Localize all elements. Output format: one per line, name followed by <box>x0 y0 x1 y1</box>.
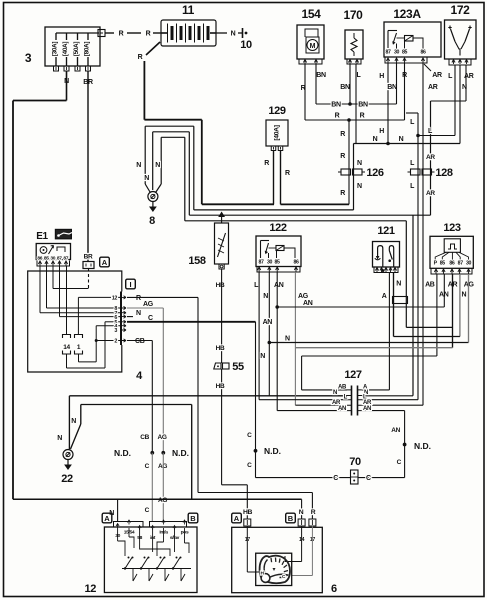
wire HB drop to 6 <box>246 485 248 519</box>
svg-text:HB: HB <box>216 282 225 289</box>
splice AN/C <box>403 443 407 447</box>
svg-text:[40A]: [40A] <box>62 42 69 56</box>
switch 158 symbol <box>218 233 226 257</box>
battery 11 thick plate <box>207 26 210 40</box>
svg-text:A: A <box>234 514 240 523</box>
svg-text:B: B <box>288 514 294 523</box>
fuse 80A terminal <box>86 66 91 71</box>
relay 122 terminal <box>268 267 271 270</box>
relay 123 fan line 85 <box>442 252 449 260</box>
switch 121 terminal <box>393 268 396 271</box>
battery 11 thick plate <box>171 26 174 40</box>
E1 key icon <box>55 229 71 238</box>
battery 11 thick plate <box>180 26 183 40</box>
relay 123 fan line P <box>435 252 446 260</box>
motor 154 M symbol <box>306 37 319 53</box>
cluster 6 N lead v <box>284 556 286 562</box>
svg-text:AR: AR <box>426 154 435 161</box>
switch 12 contact dot <box>144 557 146 559</box>
svg-text:86: 86 <box>449 261 455 267</box>
wire N drop to 12 <box>117 499 119 521</box>
relay 122 link <box>269 247 277 249</box>
svg-text:N: N <box>399 136 404 143</box>
switch 172 common left <box>455 42 460 56</box>
wire BN 123A pin30 <box>396 63 398 104</box>
switch 172 terminal bracket <box>449 59 471 65</box>
wire N drop to 6 <box>301 499 303 519</box>
svg-text:87: 87 <box>258 260 264 266</box>
switch 121 terminal <box>380 268 383 271</box>
wire R horizontal bottom <box>198 492 312 494</box>
svg-text:87: 87 <box>385 50 391 56</box>
motor 154 lead <box>304 33 306 37</box>
connector 55 <box>214 363 221 369</box>
wire AB 127 left <box>302 389 347 391</box>
svg-text:6: 6 <box>331 583 337 595</box>
junction box 4 outline <box>28 271 122 372</box>
svg-text:R: R <box>136 295 141 302</box>
svg-text:R: R <box>340 190 345 197</box>
wire E1-85 down <box>46 266 48 308</box>
relay 122 body <box>256 236 301 267</box>
wire C drop <box>255 322 257 478</box>
switch 121 left arrow <box>376 256 380 260</box>
connector 70 <box>351 470 359 484</box>
switch 158 body <box>215 223 229 264</box>
boxed label A <box>100 257 110 267</box>
fuse 50A top lead <box>77 33 79 40</box>
svg-text:E1: E1 <box>36 231 48 242</box>
wire HB vertical <box>221 269 223 363</box>
switch 12 lower lead <box>164 569 166 582</box>
wire A 127 right <box>362 389 389 391</box>
relay 123A top bar <box>388 30 397 32</box>
svg-text:123: 123 <box>443 222 461 234</box>
wire L 170 right <box>355 64 357 144</box>
wire HB vertical 2 <box>221 369 223 485</box>
motor 154 terminal bracket <box>299 59 322 64</box>
fuse 14 bracket bottom <box>63 351 71 355</box>
svg-text:R: R <box>340 131 345 138</box>
svg-text:CB: CB <box>140 434 149 441</box>
wire R down to bus <box>348 120 350 204</box>
switch 12 link d <box>157 542 164 556</box>
switch 172 left contact <box>449 26 451 30</box>
svg-text:170: 170 <box>344 8 364 22</box>
switch 172 terminal <box>465 60 468 63</box>
wire N stair1 v <box>193 126 195 210</box>
switch 158 terminal <box>219 264 224 269</box>
relay 122 terminal <box>294 267 297 270</box>
switch 172 terminal <box>452 60 455 63</box>
relay 123A pin85 riser <box>404 41 406 49</box>
relay 123 fan line 86 <box>451 252 453 260</box>
svg-text:C: C <box>397 459 402 466</box>
switch 12 blade <box>125 558 132 569</box>
wire AG to 12 <box>162 453 164 522</box>
L junction <box>416 134 420 138</box>
wire AG row8 right <box>127 307 163 309</box>
ground 8 symbol <box>148 192 158 202</box>
resistor 170 lead bottom <box>353 52 355 56</box>
svg-text:R: R <box>285 170 290 177</box>
relay 122 switch blade <box>266 243 269 253</box>
wire AR 127 right <box>362 404 423 406</box>
svg-text:N: N <box>155 162 160 169</box>
fusebox 3 top bus <box>56 32 99 34</box>
relay 123 terminal <box>458 269 461 272</box>
resistor 170 pin2 <box>355 60 358 63</box>
switch 12 link b <box>129 537 134 548</box>
switch 121 left contact U <box>378 246 383 267</box>
fuel gauge 6 frame <box>256 553 292 585</box>
wire AR 172 down <box>430 101 432 215</box>
switch 12 blade <box>157 558 164 569</box>
ground 8 arrow <box>152 202 154 208</box>
switch 121 right blade <box>389 251 392 260</box>
battery 11 thick plate <box>189 26 192 40</box>
connector 4 pin 4 arrow <box>122 324 126 327</box>
relay 122 coil right lead <box>284 248 295 258</box>
wire E1-30 to BR <box>53 288 89 290</box>
E1 terminal bracket <box>37 261 70 267</box>
svg-text:3: 3 <box>25 51 32 65</box>
svg-text:85: 85 <box>274 260 280 266</box>
wire N long left vertical <box>12 101 14 500</box>
wire C 70 left <box>256 477 351 479</box>
battery 11 thin plate <box>194 24 196 43</box>
wire AG row8 h <box>47 307 121 309</box>
battery 11 body <box>161 20 216 46</box>
wire R 154 left <box>304 64 306 120</box>
wire L 122 pin87 <box>258 272 260 400</box>
svg-text:I: I <box>129 280 131 289</box>
switch 12 contact dot <box>128 557 130 559</box>
switch 12 lower blade <box>181 574 185 581</box>
svg-text:R: R <box>138 54 143 61</box>
fuse 1 bracket bottom <box>75 351 83 355</box>
wire R bus from 129 <box>281 203 350 205</box>
relay 123A coil diagonal <box>405 36 414 42</box>
svg-text:AN: AN <box>263 319 273 326</box>
switch 12 internal lead <box>152 528 154 552</box>
svg-text:R: R <box>264 160 269 167</box>
relay 123A terminal <box>421 58 424 61</box>
svg-text:158: 158 <box>188 255 206 267</box>
wire N vertical <box>66 71 68 101</box>
svg-text:N: N <box>357 183 362 190</box>
switch 12 lower lead <box>180 569 182 582</box>
svg-text:C: C <box>145 507 150 514</box>
wire L horizontal <box>418 135 455 137</box>
svg-text:BN: BN <box>358 102 368 109</box>
fuse 129 terminal 1 <box>271 146 276 151</box>
relay 123 pulse symbol <box>448 244 457 249</box>
wire C row5 right <box>127 321 256 323</box>
switch 12 terminal <box>183 520 186 525</box>
wire cross 327 <box>406 326 452 328</box>
motor 154 pin2 <box>314 60 317 63</box>
relay 122 terminal bracket <box>257 267 300 273</box>
switch 12 internal lead <box>117 528 119 541</box>
BN junction <box>348 102 352 106</box>
switch 12 internal lead <box>128 528 130 537</box>
relay 123 inner box <box>444 239 460 253</box>
switch 121 terminal square <box>382 269 385 272</box>
cluster 6 N lead h <box>285 561 302 563</box>
switch 12 contact dot <box>148 557 150 559</box>
svg-text:AN: AN <box>391 427 400 434</box>
resistor 170 zigzag <box>351 38 357 52</box>
motor 154 inner loop <box>305 29 318 37</box>
wire N down through 126 <box>353 144 355 210</box>
switch 12 link a <box>118 541 125 556</box>
svg-text:BN: BN <box>387 84 397 91</box>
wire AG cross <box>295 347 452 349</box>
relay 123 terminal <box>467 269 470 272</box>
fuse 50A bottom lead <box>77 57 79 66</box>
svg-text:AG: AG <box>298 293 309 300</box>
svg-text:N: N <box>231 31 236 38</box>
svg-text:HB: HB <box>216 345 225 352</box>
wire AB drop <box>301 356 303 390</box>
fuel gauge 6 ticks <box>271 558 288 572</box>
svg-text:N: N <box>144 175 149 182</box>
fuse 30A terminal <box>54 66 59 71</box>
svg-text:N: N <box>57 435 62 442</box>
svg-text:A: A <box>382 293 387 300</box>
wire N horizontal 403 <box>81 404 192 406</box>
switch 172 left contact tick <box>448 27 451 29</box>
wire AB cross <box>302 355 437 357</box>
wire R 123A pin85 <box>404 63 406 120</box>
fuse 30A bottom lead <box>55 57 57 66</box>
relay 122 blade arrow <box>265 251 268 255</box>
relay 122 top bar <box>261 240 270 242</box>
relay 123A terminal <box>395 58 398 61</box>
svg-text:BN: BN <box>340 84 350 91</box>
wire R drop <box>197 297 199 492</box>
relay 122 coil <box>276 246 284 251</box>
wire N stair3 h <box>161 136 185 138</box>
svg-text:85: 85 <box>402 50 408 56</box>
cluster 6 N lead <box>301 526 303 562</box>
switch 12 blade <box>173 558 180 569</box>
svg-text:N.D.: N.D. <box>414 441 431 451</box>
switch 12 contact dot <box>172 567 174 569</box>
E1 terminal <box>51 261 54 264</box>
splice AG <box>161 451 165 455</box>
relay 123A coil <box>405 36 414 42</box>
svg-text:12: 12 <box>84 583 96 595</box>
wire fuse14 bottom link <box>67 367 106 369</box>
svg-text:AR: AR <box>426 190 435 197</box>
relay 123A terminal <box>403 58 406 61</box>
158 arrow top <box>221 216 223 223</box>
battery 11 thin plate <box>203 24 205 43</box>
battery 11 thin plate <box>185 24 187 43</box>
switch 12 contact dot <box>164 557 166 559</box>
wire BN horizontal <box>316 103 397 105</box>
svg-text:121: 121 <box>377 225 395 237</box>
wire N cross to 123 <box>269 342 468 344</box>
svg-text:M: M <box>310 43 316 50</box>
connector 4 pin 5 arrow <box>122 320 126 323</box>
wire R horizontal <box>305 119 405 121</box>
wire row7 h <box>40 312 120 314</box>
wire BN 170 left <box>349 64 351 104</box>
fuse 129 terminal 2 <box>278 146 283 151</box>
wire R fusebox to battery seg1 <box>105 32 114 34</box>
switch 12 contact dot <box>132 557 134 559</box>
cluster 6 body <box>232 527 323 592</box>
cluster 6 terminal A17 <box>244 519 251 526</box>
fusebox 3 output terminal <box>98 30 105 37</box>
fuse 40A top lead <box>66 33 68 40</box>
wire N diag right <box>156 184 162 193</box>
E1 terminal <box>45 261 48 264</box>
switch 121 terminal bracket <box>374 267 398 273</box>
svg-text:10: 10 <box>240 39 252 51</box>
wire row5 left h <box>105 321 120 323</box>
connector 127 row ticks <box>347 395 362 397</box>
svg-text:11: 11 <box>182 3 195 17</box>
wire N 121 <box>393 273 395 337</box>
wire fuse1 bottom link <box>79 361 97 363</box>
svg-text:HB: HB <box>243 509 253 516</box>
battery 11 thin plate <box>176 24 178 43</box>
wire AR 127 left <box>295 404 347 406</box>
wire BN 154 right <box>315 64 317 104</box>
svg-text:70: 70 <box>349 456 361 468</box>
battery 11 right stub <box>210 32 216 34</box>
switch 12 link e <box>185 543 190 553</box>
svg-text:AN: AN <box>338 406 346 412</box>
resistor 170 inner leads <box>353 33 355 38</box>
wire N 127 right <box>362 395 413 397</box>
wire CB drop <box>151 341 153 453</box>
svg-text:122: 122 <box>269 222 287 234</box>
fusebox 3 body <box>45 27 100 66</box>
relay 123 terminal <box>450 269 453 272</box>
relay 122 pin30 riser <box>268 253 270 258</box>
svg-text:N.D.: N.D. <box>114 448 131 458</box>
wire C to 12 <box>151 453 153 522</box>
wire C from splice <box>404 445 406 478</box>
svg-text:C: C <box>366 475 371 482</box>
svg-text:AN: AN <box>303 300 313 307</box>
wire R row12 h <box>78 296 120 298</box>
ground 22 arrow <box>67 460 69 466</box>
wire N bus 3 <box>185 220 406 222</box>
svg-text:[30A]: [30A] <box>52 42 59 56</box>
svg-text:AN: AN <box>363 406 371 412</box>
svg-text:[50A]: [50A] <box>73 42 80 56</box>
E1 terminal <box>38 261 41 264</box>
wire L vertical <box>417 113 419 400</box>
svg-text:C: C <box>145 463 150 470</box>
wire fuse1 bottom stub <box>78 354 80 362</box>
fuse 129 body <box>266 120 288 146</box>
wire R 129 right <box>280 151 282 205</box>
connector 128 <box>411 169 421 175</box>
relay 123 body <box>430 236 473 268</box>
switch 12 internal lead <box>139 528 141 543</box>
boxed label I <box>126 279 136 289</box>
relay 123 fan line 30 <box>459 252 469 260</box>
svg-text:AR: AR <box>428 84 438 91</box>
svg-text:H: H <box>379 73 384 80</box>
wire AN drop <box>404 411 406 445</box>
motor 154 pin1 <box>303 60 306 63</box>
terminal 10 bar <box>242 28 244 38</box>
switch 12 connector strip right <box>150 522 187 528</box>
resistor 170 body <box>345 30 363 59</box>
wire E1-86 down <box>39 266 41 313</box>
svg-text:H: H <box>379 128 384 135</box>
relay 123A coil right lead <box>413 38 423 49</box>
switch 121 contact dot <box>388 259 391 262</box>
cluster 6 terminal B17 <box>309 519 316 526</box>
wire N stair2 left v <box>152 132 154 190</box>
connector 127 row ticks <box>347 389 362 391</box>
battery 11 thick plate <box>198 26 201 40</box>
switch 121 terminal <box>384 268 387 271</box>
switch 172 body <box>445 20 477 59</box>
switch 12 internal lead <box>163 528 165 542</box>
svg-text:30: 30 <box>267 260 273 266</box>
svg-text:2: 2 <box>114 339 117 345</box>
connector 127 row ticks <box>347 404 362 406</box>
svg-text:22: 22 <box>61 473 73 485</box>
relay 123A pin30 riser <box>396 44 398 50</box>
svg-text:N: N <box>373 136 378 143</box>
svg-text:B: B <box>190 514 196 523</box>
wire AG 123 <box>468 274 470 343</box>
switch 12 contact dot <box>160 557 162 559</box>
switch 172 left blade <box>451 29 456 42</box>
N junction <box>268 341 272 345</box>
ground 22 symbol <box>63 450 73 460</box>
fuel gauge 6 inner arc <box>264 560 267 573</box>
switch 12 contact dot <box>124 567 126 569</box>
connector 4 pin 7 arrow <box>122 311 126 314</box>
wire R 129 left <box>273 151 275 205</box>
svg-text:AN: AN <box>274 282 284 289</box>
switch 12 body <box>104 527 197 593</box>
svg-text:N: N <box>299 509 304 516</box>
cluster 6 HB lead h <box>247 571 259 573</box>
wire E1-87b down <box>66 266 68 334</box>
wire fuse14 bottom stub <box>66 354 68 368</box>
wire N horizontal bottom <box>13 498 302 500</box>
svg-text:R: R <box>335 113 340 120</box>
svg-text:N: N <box>263 293 268 300</box>
wire N drop to bus <box>191 405 193 500</box>
svg-text:N.D.: N.D. <box>264 446 281 456</box>
wire N horizontal <box>13 100 67 102</box>
switch 12 contact dot <box>176 557 178 559</box>
wire N diag left <box>145 184 150 193</box>
svg-text:N.D.: N.D. <box>172 448 189 458</box>
wire R drop to 6 <box>311 493 313 520</box>
switch 12 contact bus <box>122 568 191 570</box>
wire N 22 right diag <box>80 405 82 425</box>
svg-text:CB: CB <box>135 338 145 345</box>
svg-text:3: 3 <box>114 328 117 334</box>
wire L 172 <box>454 65 456 136</box>
switch 121 right contact U <box>389 246 393 267</box>
